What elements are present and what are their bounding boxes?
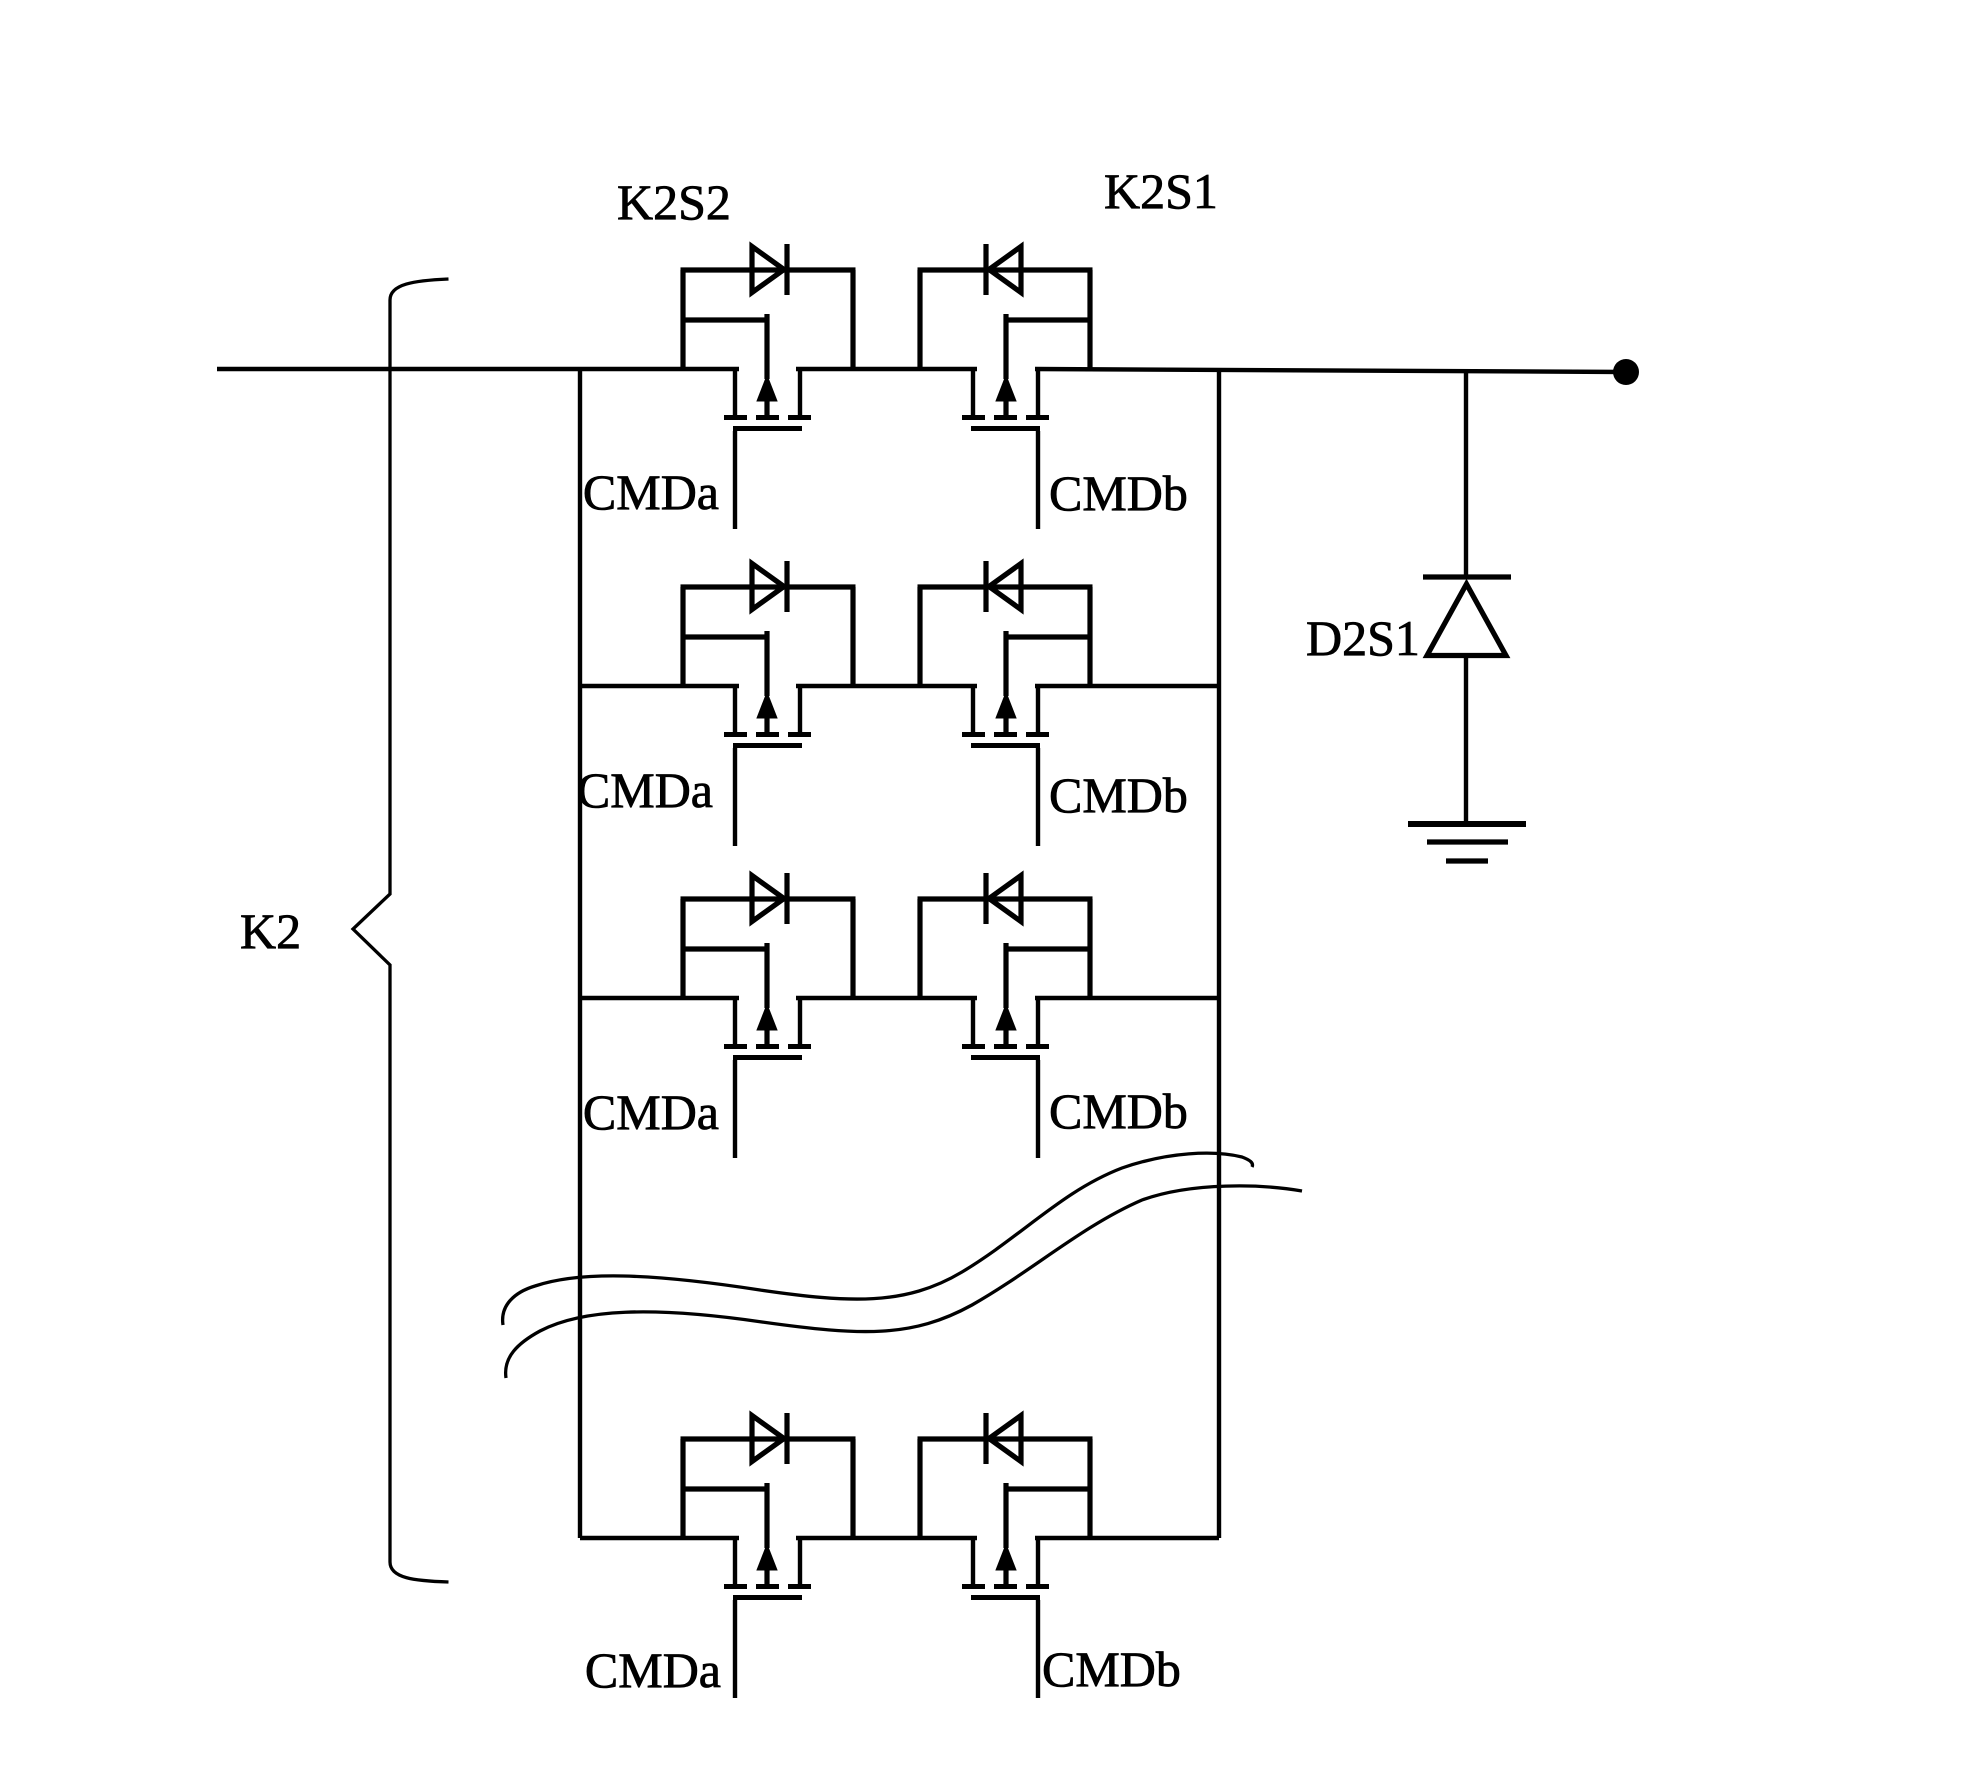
wire: top rail between K2S2 and K2S1	[796, 367, 977, 371]
wire: right bus of K2 switch bank	[1217, 369, 1221, 1538]
svg-text:CMDa: CMDa	[585, 1642, 721, 1698]
svg-text:CMDb: CMDb	[1049, 1083, 1188, 1139]
wire: top rail from K2S1 to output node	[1035, 369, 1626, 372]
ground symbol bar 3	[1446, 858, 1488, 863]
wire: row 3 right segment	[1035, 996, 1219, 1000]
wire: row 4 middle segment	[796, 1536, 977, 1540]
break mark lower squiggle	[506, 1186, 1302, 1378]
ground symbol bar 1	[1408, 821, 1526, 827]
wire: row 4 right segment	[1035, 1536, 1219, 1540]
ground symbol bar 2	[1427, 839, 1508, 844]
wire: row 2 middle segment	[796, 684, 977, 688]
diode D2S1 cathode bar	[1423, 574, 1511, 579]
svg-text:K2: K2	[240, 903, 301, 959]
svg-text:CMDb: CMDb	[1049, 465, 1188, 521]
svg-text:D2S1: D2S1	[1306, 610, 1420, 666]
transistor row 2 CMDb side	[918, 561, 1093, 846]
junction node dot	[1613, 359, 1639, 385]
svg-text:CMDb: CMDb	[1042, 1641, 1181, 1697]
wire: row 3 middle segment	[796, 996, 977, 1000]
transistor row 4 CMDb side	[918, 1413, 1093, 1698]
wire: row 3 left segment	[580, 996, 739, 1000]
svg-text:CMDb: CMDb	[1049, 767, 1188, 823]
transistor K2S2 (row 1, CMDa gate)	[681, 244, 856, 529]
svg-text:CMDa: CMDa	[583, 464, 719, 520]
transistor row 4 CMDa side	[681, 1413, 856, 1698]
wire: row 2 left segment	[580, 684, 739, 688]
brace K2 group	[353, 279, 449, 1582]
diode D2S1 triangle	[1427, 584, 1506, 656]
break mark upper squiggle	[503, 1153, 1253, 1325]
transistor K2S1 (row 1, CMDb gate)	[918, 244, 1093, 529]
transistor row 3 CMDb side	[918, 873, 1093, 1158]
wire: row 2 right segment	[1035, 684, 1219, 688]
wire: row 4 left segment	[580, 1536, 739, 1540]
svg-text:CMDa: CMDa	[577, 762, 713, 818]
wire: left bus of K2 switch bank	[578, 369, 582, 1538]
diode D2S1 anode lead	[1464, 371, 1468, 577]
diode D2S1 lead to ground	[1464, 657, 1468, 824]
transistor row 3 CMDa side	[681, 873, 856, 1158]
transistor row 2 CMDa side	[681, 561, 856, 846]
wire: top rail left segment	[217, 367, 739, 371]
svg-text:CMDa: CMDa	[583, 1084, 719, 1140]
svg-text:K2S1: K2S1	[1104, 163, 1218, 219]
svg-text:K2S2: K2S2	[617, 174, 731, 230]
